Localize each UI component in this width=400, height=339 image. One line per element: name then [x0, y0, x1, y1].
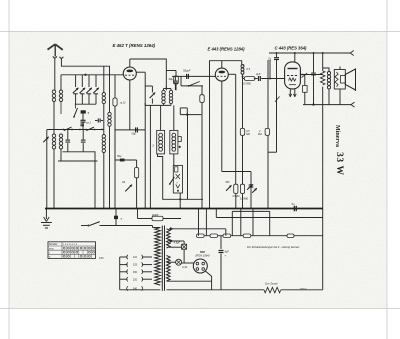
- wire V2 screen bracket: [210, 61, 242, 95]
- wire: [167, 289, 265, 291]
- wire: [153, 227, 161, 229]
- svg-text:125: 125: [133, 264, 138, 267]
- wire: [276, 60, 278, 152]
- wire V1 top: [129, 59, 131, 67]
- table row lines: [48, 245, 96, 247]
- ferr box: [152, 216, 163, 221]
- trimmer capacitor C1: [73, 88, 79, 94]
- resistor top: [174, 76, 179, 84]
- fuse: [115, 209, 117, 226]
- junction: [269, 78, 271, 80]
- wire: [254, 78, 258, 80]
- terminal: [350, 51, 354, 56]
- wire: [137, 209, 139, 219]
- wire V3 plate: [300, 74, 322, 76]
- trimmer arrow on left wire: [43, 137, 48, 142]
- resistor: [113, 98, 117, 106]
- tap 240: [127, 286, 128, 290]
- mains switch: [81, 225, 89, 227]
- svg-text:E 443 (RENS 1284): E 443 (RENS 1284): [207, 47, 245, 52]
- wire antenna right lead: [61, 59, 110, 67]
- speaker cone: [345, 69, 355, 90]
- switch contact: [87, 127, 95, 131]
- wire left drop: [46, 130, 48, 209]
- wire: [103, 66, 105, 92]
- wire: [152, 226, 154, 228]
- svg-text:150: 150: [133, 271, 138, 274]
- wire: [94, 151, 96, 208]
- wire V1 cathode: [129, 80, 131, 130]
- wire: [205, 209, 207, 236]
- wire: [339, 89, 341, 105]
- pot arrow: [226, 185, 231, 190]
- wire V2 top: [221, 61, 223, 68]
- wire grid rail y74.8: [61, 74, 122, 76]
- rectifier tube: [193, 259, 207, 273]
- resistor 0.1M: [240, 128, 244, 135]
- svg-text:1 2 3 4 5 6 7 8: 1 2 3 4 5 6 7 8: [63, 244, 78, 246]
- svg-text:Welle: Welle: [49, 248, 55, 250]
- wire: [187, 115, 189, 200]
- svg-text:47Ω: 47Ω: [99, 257, 104, 260]
- wire: [164, 88, 172, 90]
- band switch lever: [74, 108, 78, 117]
- wire right main vertical: [322, 53, 324, 71]
- wire y151.4: [63, 151, 96, 153]
- taps bus: [119, 257, 121, 290]
- wire V2 cathode: [221, 81, 223, 171]
- svg-text:220: 220: [133, 278, 138, 281]
- wire: [160, 105, 162, 130]
- OT primary coil: [327, 72, 330, 75]
- coil L8: [169, 90, 172, 93]
- speaker zigzag: [335, 72, 338, 87]
- wire: [60, 149, 62, 161]
- speaker frame: [334, 70, 345, 90]
- svg-text:50μ: 50μ: [117, 154, 122, 158]
- wire secondary bottom tap: [167, 280, 212, 282]
- dial lamp: [176, 259, 182, 265]
- svg-text:C 443 (RES 364): C 443 (RES 364): [275, 46, 307, 51]
- wire: [149, 105, 151, 208]
- series resistor: [243, 234, 251, 238]
- svg-text:0,7MΩ: 0,7MΩ: [243, 82, 251, 86]
- svg-text:50μμF: 50μμF: [183, 69, 191, 73]
- capacitor 50pF series: [186, 74, 188, 79]
- capacitor: [313, 53, 315, 73]
- page border left: [8, 0, 10, 339]
- coil L1: [52, 90, 55, 93]
- wire y161 box bottom: [58, 160, 97, 162]
- svg-text:50μ: 50μ: [132, 132, 137, 136]
- svg-text:30μ: 30μ: [169, 77, 174, 81]
- svg-text:33: 33: [122, 180, 126, 184]
- wire: [323, 68, 329, 72]
- cap C bars: [67, 130, 69, 140]
- svg-text:4,5μF: 4,5μF: [174, 242, 181, 245]
- switch contact: [64, 127, 72, 131]
- tap 150: [120, 271, 128, 273]
- coil L4: [59, 134, 62, 137]
- svg-text:6,3A: 6,3A: [182, 266, 187, 269]
- scanned page area: [9, 31, 387, 308]
- wire: [109, 66, 111, 112]
- wire y129.9: [115, 129, 145, 131]
- coil choke 0.5: [241, 65, 244, 68]
- pot arrow 33: [125, 185, 132, 192]
- capacitor stub: [95, 120, 98, 122]
- trimmer capacitor C2: [80, 88, 86, 94]
- pot arrow: [247, 184, 252, 189]
- resistor 2M: [265, 128, 269, 135]
- mains switch lever: [90, 222, 100, 226]
- tap 110: [120, 256, 128, 258]
- wire y217.5: [216, 217, 322, 219]
- wire y171.5 AVC: [222, 171, 251, 173]
- wire: [53, 102, 55, 135]
- resistor zigzag field coil: [321, 71, 325, 85]
- switch table frame: [48, 242, 96, 259]
- capacitor 2uF: [258, 76, 260, 81]
- wire: [180, 107, 187, 109]
- wire: [269, 211, 271, 235]
- wire switch row y129.5: [47, 129, 104, 131]
- table marks: [63, 247, 65, 249]
- wire: [163, 104, 165, 106]
- wire: [186, 108, 188, 115]
- coil L2: [59, 90, 62, 93]
- wire: [173, 154, 175, 166]
- wire: [136, 178, 138, 209]
- wire: [173, 105, 175, 130]
- wire: [144, 103, 146, 105]
- svg-text:33 W: 33 W: [334, 152, 344, 176]
- wire rectifier filament return: [205, 271, 211, 290]
- speaker magnet: [341, 76, 346, 84]
- transformer secondary lower: [167, 256, 171, 282]
- tap 220: [120, 278, 128, 280]
- coil L3: [52, 134, 55, 137]
- resistor on 235 line: [287, 234, 294, 238]
- coil IF1b: [172, 133, 176, 137]
- transformer core: [161, 226, 163, 291]
- wire: [240, 209, 242, 236]
- wire: [82, 122, 84, 129]
- wire: [114, 106, 116, 160]
- wire: [242, 135, 244, 184]
- svg-text:240: 240: [133, 288, 138, 291]
- main ground bus: [45, 208, 323, 210]
- svg-text:(RGN 1064): (RGN 1064): [196, 254, 210, 258]
- svg-text:2μF: 2μF: [255, 72, 261, 76]
- page border right: [386, 0, 388, 339]
- cap C bars: [82, 130, 84, 140]
- resistor pot 0.25M: [240, 184, 244, 193]
- resistor pot 0.5M: [234, 184, 238, 193]
- IF can 1: [157, 130, 165, 154]
- B+ bus resistor chain: [197, 235, 323, 237]
- wire top rail y53: [269, 52, 350, 54]
- wire: [225, 229, 227, 236]
- wire: [179, 108, 181, 115]
- tube V3 filament: [289, 78, 296, 81]
- wire: [215, 209, 217, 218]
- svg-text:0,5: 0,5: [247, 68, 251, 71]
- wire: [165, 87, 167, 89]
- wire: [175, 84, 177, 90]
- trimmer capacitor C4: [93, 88, 99, 94]
- capacitor grid top: [276, 53, 278, 57]
- tube V3 cathode bar: [289, 84, 296, 86]
- capacitor 5uF +: [220, 236, 222, 249]
- wire: [242, 74, 244, 128]
- tube V3 envelope: [285, 62, 301, 89]
- series resistor: [197, 234, 205, 238]
- wire: [145, 85, 152, 87]
- tube V2 envelope: [215, 68, 228, 81]
- tube V1 grid: [125, 74, 134, 76]
- IF can 2: [170, 130, 178, 154]
- capacitor 50pF: [135, 127, 137, 132]
- switch on plate: [302, 73, 308, 78]
- wire V1 grid left: [122, 74, 124, 76]
- svg-text:E 452 T (RENS 1264): E 452 T (RENS 1264): [112, 43, 155, 48]
- wire: [60, 75, 62, 90]
- coil L5b: [102, 135, 105, 138]
- wire: [82, 114, 84, 120]
- svg-text:Zum Zusatz: Zum Zusatz: [264, 282, 278, 285]
- wire V1 right: [136, 71, 145, 73]
- dropper resistor zigzag: [264, 287, 281, 293]
- tap 125: [120, 264, 128, 266]
- wire: [267, 135, 269, 208]
- trimmer capacitor C3: [86, 88, 92, 94]
- coil L7: [162, 90, 165, 93]
- svg-text:MΩ: MΩ: [246, 133, 250, 136]
- wire: [281, 289, 323, 291]
- capacitor 30pF: [174, 76, 176, 80]
- coil L6: [108, 112, 111, 115]
- ground symbol: [45, 209, 47, 220]
- wire: [109, 126, 111, 208]
- svg-text:Schalter: Schalter: [49, 243, 58, 246]
- svg-text:506: 506: [200, 250, 205, 254]
- wire V2 plate: [228, 73, 235, 75]
- terminal: [351, 102, 355, 107]
- tone cap box: [303, 86, 308, 93]
- wire: [179, 193, 181, 209]
- wire: [114, 75, 116, 98]
- svg-text:Für Schalterstellungen bei 4 ·: Für Schalterstellungen bei 4 · Leitung k…: [247, 245, 300, 249]
- capacitor ca1: [81, 119, 86, 121]
- svg-text:0,5MΩ: 0,5MΩ: [233, 196, 240, 198]
- resistor: [200, 95, 204, 103]
- switch lever: [170, 177, 175, 184]
- wire: [163, 89, 165, 91]
- page border bottom: [0, 308, 400, 310]
- capacitor on bus 5uF: [293, 206, 295, 211]
- junction: [84, 74, 86, 76]
- wire: [144, 72, 146, 208]
- wire heater tap1: [169, 228, 226, 230]
- wire: [198, 209, 200, 236]
- svg-text:ca.1: ca.1: [86, 121, 91, 125]
- tube V2 grid: [217, 75, 226, 77]
- wire: [269, 60, 271, 79]
- junction: [242, 76, 244, 78]
- tube V3 grid dashes: [287, 75, 297, 77]
- tube V3 legs: [289, 89, 291, 97]
- transformer primary winding: [155, 228, 161, 286]
- svg-text:ca.10: ca.10: [120, 103, 126, 105]
- wire y105 osc bottom: [145, 104, 171, 106]
- cap X 4.5uF: [182, 244, 187, 249]
- wire L-bend: [268, 151, 277, 153]
- tube V3 anode bar: [288, 68, 298, 70]
- tube V1 envelope: [123, 67, 136, 80]
- tube V1 anode: [126, 70, 133, 73]
- resistor on can2: [178, 137, 181, 142]
- coil L5: [102, 93, 105, 96]
- antenna: [54, 44, 56, 56]
- wire: [252, 209, 254, 236]
- resistor: [135, 168, 139, 178]
- wire: [339, 67, 341, 70]
- wire y114.6: [180, 114, 201, 116]
- wire V2 screen drop: [209, 95, 211, 209]
- resistor 0.7M: [244, 77, 255, 81]
- junction: [186, 113, 188, 115]
- wire antenna left lead: [54, 58, 56, 90]
- wire: [103, 153, 105, 209]
- wire: [53, 149, 55, 209]
- wire plate drop: [235, 74, 237, 184]
- coil IF1a: [159, 133, 163, 137]
- switch on wire: [275, 97, 280, 102]
- wire: [294, 53, 296, 62]
- scan noise: [9, 31, 387, 308]
- wire: [328, 89, 330, 105]
- wire: [201, 86, 203, 95]
- wire: [60, 102, 62, 115]
- page border top: [0, 31, 400, 33]
- capacitor 5000 (filled): [81, 110, 86, 113]
- wire: [114, 106, 116, 209]
- wire V2 grid line: [172, 75, 215, 77]
- tube V2 anode: [218, 71, 225, 74]
- IF trimmer box: [173, 165, 182, 193]
- series resistor: [210, 234, 218, 238]
- transformer secondary upper: [167, 229, 171, 248]
- svg-text:Minerva: Minerva: [334, 125, 340, 147]
- wire: [267, 60, 269, 128]
- wire: [170, 89, 172, 91]
- table column lines: [61, 242, 63, 259]
- svg-text:0,25MΩ: 0,25MΩ: [240, 198, 248, 200]
- wire: [103, 104, 105, 135]
- wire V1 plate rail: [130, 59, 167, 90]
- antenna plug sockets: [53, 56, 57, 58]
- svg-text:MΩ: MΩ: [258, 133, 262, 136]
- IF box marks: [175, 167, 178, 172]
- series resistor: [223, 234, 231, 238]
- wire: [170, 104, 172, 106]
- wire y160 row: [115, 159, 137, 161]
- junction dots rail: [276, 52, 278, 54]
- wire: [231, 211, 233, 235]
- wire: [162, 198, 203, 200]
- wire to V3 grid: [261, 78, 284, 80]
- wire heater tap2: [169, 240, 184, 242]
- svg-text:FERR: FERR: [152, 215, 159, 217]
- switch on grid: [189, 82, 200, 86]
- wire y211.4: [232, 210, 269, 212]
- osc trimmer: [150, 93, 156, 99]
- wire: [158, 154, 163, 199]
- junction: [179, 198, 181, 200]
- svg-text:110: 110: [133, 256, 138, 259]
- wire: [303, 104, 351, 106]
- wire: [120, 289, 161, 291]
- wire: [169, 246, 182, 248]
- electrolytic: [250, 172, 252, 209]
- wire: [75, 103, 96, 105]
